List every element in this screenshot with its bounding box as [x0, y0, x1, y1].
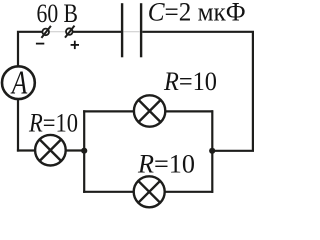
wire: top branch horizontal through lamp 2	[83, 110, 213, 112]
svg-text:R=10: R=10	[163, 67, 217, 96]
label: plus polarity	[71, 41, 79, 49]
wire: between right terminal and capacitor	[73, 31, 121, 33]
capacitor C = 2 uF : left plate	[121, 3, 123, 57]
wire: gray link between battery terminals	[50, 31, 67, 33]
wire: top-left segment from left corner to left terminal	[18, 32, 43, 152]
lamp 2 (R=10)	[134, 95, 165, 126]
capacitor C = 2 uF : right plate	[140, 3, 142, 57]
terminal clamp right (+) of 60 V source	[65, 26, 75, 38]
wire: gray link between capacitor plates	[124, 31, 140, 33]
svg-text:R=10: R=10	[28, 108, 78, 137]
wire: bottom branch horizontal through lamp 3	[83, 191, 213, 193]
node: right junction dot	[209, 148, 215, 154]
node: left junction dot	[81, 148, 87, 154]
wire: right branch vertical from top branch to bottom branch	[211, 110, 213, 193]
ammeter A	[2, 64, 35, 102]
svg-text:60 В: 60 В	[37, 0, 79, 28]
lamp 3 (R=10)	[134, 176, 165, 207]
svg-text:A: A	[10, 64, 28, 102]
svg-text:C=2 мкФ: C=2 мкФ	[148, 0, 246, 26]
wire: lamp row left, from left wire corner to left junction	[17, 149, 84, 151]
lamp 1 (R=10)	[35, 135, 66, 166]
wire: capacitor to top-right corner, down right side, to right junction	[142, 32, 253, 151]
wire: left junction vertical from top branch to bottom branch	[83, 110, 85, 193]
terminal clamp left (-) of 60 V source	[41, 26, 51, 38]
label: minus polarity	[36, 43, 44, 45]
svg-text:R=10: R=10	[137, 149, 195, 178]
